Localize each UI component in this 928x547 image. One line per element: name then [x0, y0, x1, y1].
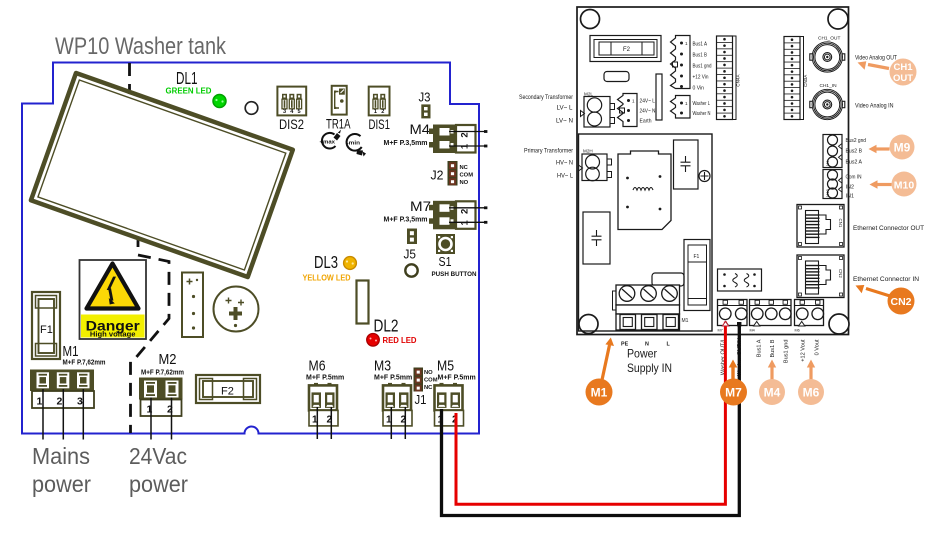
svg-text:power: power: [32, 471, 91, 497]
svg-text:Bus2 B: Bus2 B: [846, 149, 863, 155]
svg-text:+12 Vin: +12 Vin: [693, 75, 709, 81]
svg-text:LV~ L: LV~ L: [557, 106, 574, 112]
svg-text:CN1: CN1: [838, 219, 843, 228]
BNC CH1_OUT: [810, 36, 845, 73]
connector 24V (secondary): [618, 94, 638, 127]
BNC CH1_IN: [810, 83, 845, 120]
rotation icon -min: [347, 134, 367, 157]
callout arrow M7: [731, 367, 734, 380]
connector M3: [383, 383, 412, 426]
svg-text:1: 1: [374, 109, 377, 115]
svg-text:M+F P.7,62mm: M+F P.7,62mm: [141, 370, 184, 377]
svg-text:M3: M3: [374, 358, 391, 375]
connector M4: [429, 125, 487, 154]
right board outline: [577, 7, 849, 335]
callout circle M4: [759, 379, 785, 405]
jumper header J2: [448, 161, 458, 186]
DIP switch DIS2: [277, 87, 306, 116]
mounting hole below J5: [405, 264, 417, 276]
M10 labels: [846, 175, 862, 200]
display module (rotated): [31, 73, 293, 277]
connector M6: [309, 383, 338, 426]
connector M5: [435, 383, 464, 426]
svg-text:CN4A: CN4A: [736, 74, 741, 87]
svg-text:HV~ L: HV~ L: [557, 174, 574, 180]
svg-text:1: 1: [632, 99, 635, 104]
svg-text:1: 1: [685, 41, 688, 46]
svg-text:Secondary Transformer: Secondary Transformer: [519, 95, 573, 101]
svg-text:LV~ N: LV~ N: [556, 119, 573, 125]
mounting hole bottom-right: [829, 314, 849, 334]
svg-text:DIS2: DIS2: [279, 116, 304, 132]
svg-text:M1: M1: [591, 386, 608, 400]
wire red (M5-2 to M7-L): [456, 322, 725, 505]
callout arrow M1: [602, 345, 610, 380]
svg-text:F2: F2: [221, 386, 234, 398]
svg-text:High voltage: High voltage: [90, 330, 136, 339]
svg-text:J5: J5: [404, 248, 417, 262]
Washer labels: [693, 101, 711, 117]
svg-text:GREEN LED: GREEN LED: [166, 87, 212, 96]
M1 wires to board edge: [43, 389, 83, 440]
pin strip CN4A: [717, 36, 741, 120]
PE N L labels: [621, 342, 671, 348]
svg-text:J3: J3: [419, 91, 431, 105]
svg-text:24V~ L: 24V~ L: [640, 99, 656, 105]
svg-text:-min: -min: [347, 140, 361, 146]
svg-text:5: 5: [298, 109, 301, 115]
svg-text:NO: NO: [424, 370, 433, 376]
svg-text:Bus1 A: Bus1 A: [757, 339, 763, 357]
svg-text:COM: COM: [424, 378, 438, 384]
callout circle M9: [890, 135, 915, 160]
mounting hole top-left: [581, 10, 600, 29]
vertical spacer bar: [656, 74, 662, 120]
trimmer TR1A: [332, 86, 347, 115]
Ethernet connector CN2 (IN): [797, 255, 844, 298]
left board outline: [22, 63, 479, 434]
svg-text:PUSH BUTTON: PUSH BUTTON: [432, 271, 477, 278]
M7 pin marks over wires: [722, 322, 728, 327]
callout arrow M10: [877, 183, 892, 186]
svg-text:DL1: DL1: [176, 68, 198, 88]
svg-text:Com IN: Com IN: [846, 175, 862, 181]
svg-text:Primary Transformer: Primary Transformer: [524, 149, 573, 155]
M3 wires: [391, 407, 405, 439]
svg-text:CH1_IN: CH1_IN: [820, 83, 838, 89]
svg-text:IN1: IN1: [846, 194, 855, 200]
svg-text:WP10 Washer tank: WP10 Washer tank: [55, 33, 227, 60]
svg-text:NO: NO: [460, 180, 469, 186]
svg-text:Supply IN: Supply IN: [627, 361, 672, 375]
svg-text:CN2: CN2: [890, 296, 911, 308]
callout arrow CH1 OUT: [868, 65, 889, 69]
Bus2 labels: [846, 138, 867, 166]
J2 pin labels NC COM NO: [460, 165, 474, 186]
svg-text:J1: J1: [415, 393, 427, 407]
svg-text:M9: M9: [825, 160, 830, 166]
connector M2: [139, 378, 183, 417]
svg-text:CH1_OUT: CH1_OUT: [818, 36, 840, 42]
svg-text:3: 3: [77, 396, 83, 408]
jumper header J1: [414, 368, 424, 392]
svg-text:DL2: DL2: [374, 316, 399, 336]
svg-text:NC: NC: [424, 385, 433, 391]
svg-text:NC: NC: [460, 165, 469, 171]
Ethernet connector CN1 (OUT): [797, 205, 844, 248]
svg-text:OUT: OUT: [893, 73, 913, 84]
svg-text:M9: M9: [894, 141, 911, 155]
svg-text:M7: M7: [410, 198, 431, 214]
LED DL1: [213, 95, 226, 108]
svg-text:M+F P.3,5mm: M+F P.3,5mm: [384, 217, 428, 224]
connector M7 (right board bottom): [718, 300, 748, 333]
rotated pin labels under right board: [721, 338, 821, 376]
svg-text:M+F P.5mm: M+F P.5mm: [306, 375, 344, 382]
svg-text:Bus1 gnd: Bus1 gnd: [784, 340, 790, 364]
svg-text:0 Vin: 0 Vin: [693, 86, 705, 92]
svg-text:M4: M4: [750, 329, 755, 333]
svg-text:M6: M6: [309, 358, 326, 375]
wire black (M5-1 to M7-N): [442, 323, 740, 516]
connector M10: [823, 170, 842, 199]
svg-text:RED LED: RED LED: [383, 336, 417, 345]
transformer: [618, 151, 671, 230]
callout arrow M4: [770, 368, 773, 381]
svg-text:M+F P.5mm: M+F P.5mm: [438, 375, 476, 382]
svg-text:Bus1 B: Bus1 B: [770, 339, 776, 357]
svg-text:F2: F2: [623, 47, 631, 53]
svg-text:2: 2: [381, 109, 384, 115]
svg-text:0 Vout: 0 Vout: [815, 339, 821, 355]
svg-text:Power: Power: [627, 347, 657, 361]
svg-text:Bus2 gnd: Bus2 gnd: [846, 138, 867, 144]
svg-text:+max: +max: [320, 139, 336, 145]
svg-text:TR1A: TR1A: [326, 116, 351, 132]
svg-text:Bus1 gnd: Bus1 gnd: [693, 64, 712, 70]
connector M9 (Bus2): [823, 135, 842, 168]
capacitor block top: [674, 140, 699, 189]
svg-text:HV~ N: HV~ N: [556, 161, 573, 167]
svg-text:COM: COM: [460, 173, 474, 179]
electrolytic capacitor (battery shape): [182, 273, 203, 338]
svg-text:YELLOW LED: YELLOW LED: [303, 274, 351, 283]
callout circle M10: [892, 172, 917, 197]
buzzer: [214, 287, 259, 332]
svg-text:M2: M2: [159, 351, 177, 368]
svg-text:power: power: [129, 471, 188, 497]
fuse F1: [32, 292, 60, 359]
mounting hole: [245, 102, 258, 115]
svg-text:3: 3: [283, 109, 286, 115]
svg-text:F1: F1: [40, 324, 53, 336]
svg-text:Video Analog OUT: Video Analog OUT: [855, 55, 897, 62]
svg-text:M7: M7: [718, 329, 723, 333]
svg-text:Earth: Earth: [640, 119, 652, 125]
connector M7: [429, 201, 487, 230]
callout circle CH1 OUT: [890, 59, 917, 86]
svg-text:Mains: Mains: [32, 443, 90, 469]
high-voltage separation dashed line: [130, 63, 170, 433]
LED DL2: [367, 334, 380, 347]
svg-text:F1: F1: [694, 254, 700, 260]
svg-text:Bus2 A: Bus2 A: [846, 160, 863, 166]
svg-text:Washer L: Washer L: [693, 101, 711, 107]
M2 wires to board edge: [151, 398, 172, 440]
svg-text:M2H: M2H: [583, 149, 593, 154]
svg-text:Bus1 B: Bus1 B: [693, 53, 708, 59]
Primary Transformer labels: [524, 149, 574, 180]
svg-text:Ethernet Connector OUT: Ethernet Connector OUT: [853, 226, 924, 232]
mounting hole top-right: [828, 9, 848, 29]
screw: [699, 171, 710, 182]
svg-text:M10: M10: [825, 188, 830, 197]
svg-text:M+F P.5mm: M+F P.5mm: [374, 375, 412, 382]
connector M6 (right board bottom): [795, 300, 824, 333]
svg-text:M4: M4: [764, 386, 781, 400]
svg-text:M10: M10: [894, 180, 915, 192]
svg-text:Ethernet Connector IN: Ethernet Connector IN: [853, 277, 919, 283]
svg-text:DIS1: DIS1: [369, 116, 391, 132]
Bus1 labels: [693, 42, 712, 92]
svg-text:2: 2: [460, 209, 471, 214]
callout arrow M9: [876, 147, 890, 150]
svg-text:CN3A: CN3A: [803, 74, 808, 87]
svg-text:M1: M1: [63, 343, 79, 360]
DIP switch DIS1: [369, 87, 390, 116]
J1 pin labels NO COM NC: [424, 370, 438, 391]
svg-text:24Vac: 24Vac: [129, 443, 187, 469]
svg-text:2: 2: [57, 396, 63, 408]
svg-text:IN2: IN2: [846, 185, 855, 191]
connector M4 (right board bottom): [750, 300, 792, 333]
svg-text:2: 2: [460, 132, 471, 137]
svg-text:CN2: CN2: [838, 269, 843, 278]
svg-text:M4: M4: [410, 121, 431, 137]
svg-text:24V~ N: 24V~ N: [640, 109, 656, 115]
callout circle M7: [720, 379, 747, 406]
terminal block M1 (power supply): [613, 285, 689, 330]
svg-text:J2: J2: [431, 169, 444, 183]
mounting hole bottom-left: [579, 315, 598, 334]
svg-text:M+F P.7,62mm: M+F P.7,62mm: [63, 360, 106, 367]
callout circle M6: [798, 379, 824, 405]
pin strip CN3A: [784, 37, 808, 120]
fuse F2: [196, 375, 260, 403]
small relay footprint: [604, 72, 629, 82]
svg-text:Bus1 A: Bus1 A: [693, 42, 708, 48]
connector Bus1: [671, 36, 691, 89]
svg-text:DL3: DL3: [314, 252, 338, 272]
danger high voltage sign: [80, 260, 147, 339]
connector M1: [30, 370, 94, 409]
power supply section box: [579, 134, 713, 331]
svg-text:1: 1: [685, 101, 688, 106]
LED DL3: [344, 257, 357, 270]
svg-text:M7: M7: [725, 386, 742, 400]
svg-text:CH1: CH1: [893, 62, 913, 73]
svg-text:1: 1: [37, 396, 43, 408]
connector M2L: [581, 92, 615, 128]
svg-text:S1: S1: [439, 255, 452, 269]
svg-text:M5: M5: [437, 358, 454, 375]
small footprint above M1: [652, 273, 684, 286]
24V labels: [640, 99, 656, 125]
callout circle CN2: [888, 288, 915, 315]
connector footprint rect: [357, 281, 369, 324]
svg-text:M+F P.3,5mm: M+F P.3,5mm: [384, 140, 428, 147]
svg-text:M6: M6: [795, 329, 800, 333]
capacitor block left: [583, 212, 610, 264]
svg-text:M1: M1: [682, 318, 689, 324]
M6 wires: [317, 407, 331, 439]
fuse F1 (right board): [684, 240, 710, 311]
callout arrow M6: [809, 368, 812, 381]
connector Washer: [671, 96, 691, 119]
connector M2H: [579, 149, 612, 181]
svg-text:Washer N: Washer N: [693, 111, 711, 117]
callout circle M1: [586, 379, 613, 406]
svg-text:+12 Vout: +12 Vout: [801, 339, 807, 362]
push button S1: [436, 234, 455, 254]
svg-text:M6: M6: [803, 386, 820, 400]
fuse F2 (right board): [590, 36, 661, 62]
svg-text:M2L: M2L: [584, 92, 593, 97]
callout arrow CN2: [866, 289, 890, 297]
svg-text:Video Analog IN: Video Analog IN: [855, 103, 894, 110]
rotation icon +max: [320, 130, 342, 149]
jumper header J3: [421, 104, 430, 118]
jumper header J5: [407, 229, 417, 245]
relay (right board): [718, 269, 762, 291]
Secondary Transformer labels: [519, 95, 573, 125]
